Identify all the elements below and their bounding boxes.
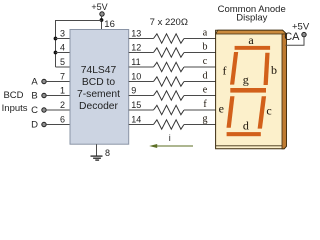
svg-text:9: 9 [131, 85, 136, 95]
wire input D to pin 6 [46, 124, 70, 126]
wire pin 4 stub [56, 52, 71, 54]
wire pin 9 stub [129, 95, 154, 97]
svg-text:BCD to: BCD to [82, 77, 115, 88]
svg-text:c: c [203, 56, 208, 67]
resistor R2 220 ohm [154, 48, 185, 57]
wire input B to pin 1 [46, 95, 70, 97]
display face bottom line [216, 145, 282, 147]
svg-text:b: b [271, 63, 277, 77]
wire pin 13 stub [129, 38, 154, 40]
node junction dot at pin16 branch [100, 18, 104, 22]
wire R5 to display node e [184, 95, 216, 97]
svg-text:CA: CA [284, 31, 300, 43]
power terminal circle +5V [100, 12, 104, 16]
svg-text:d: d [243, 118, 249, 132]
svg-text:8: 8 [105, 148, 110, 158]
segment f [230, 52, 238, 85]
resistor R7 220 ohm [154, 120, 185, 129]
svg-text:2: 2 [60, 100, 65, 110]
power terminal circle CA [302, 32, 306, 36]
wire left vertical rail [55, 20, 57, 67]
svg-text:Inputs: Inputs [2, 103, 28, 114]
resistor R6 220 ohm [154, 105, 185, 114]
wire pin 12 stub [129, 52, 154, 54]
wire R3 to display node c [184, 66, 216, 68]
svg-text:16: 16 [104, 19, 115, 30]
segment b [264, 53, 270, 85]
svg-text:d: d [203, 71, 208, 82]
junction dot rail/pin3 [54, 37, 58, 41]
svg-text:C: C [31, 105, 38, 116]
svg-text:e: e [203, 85, 208, 96]
svg-text:e: e [219, 102, 224, 116]
svg-text:1: 1 [60, 85, 65, 95]
resistor R1 220 ohm [154, 34, 185, 43]
display U2 common anode body [216, 30, 287, 149]
segment c [258, 96, 267, 128]
svg-text:11: 11 [131, 57, 140, 67]
svg-text:13: 13 [131, 28, 141, 38]
svg-text:7: 7 [60, 71, 65, 81]
IC U1 74LS47 body [70, 30, 129, 145]
svg-text:g: g [203, 114, 208, 125]
resistor R3 220 ohm [154, 62, 185, 71]
svg-text:D: D [31, 120, 38, 131]
svg-text:3: 3 [60, 28, 65, 38]
svg-text:10: 10 [131, 71, 141, 81]
svg-text:g: g [243, 73, 249, 87]
svg-text:b: b [203, 42, 208, 53]
wire from +5V terminal down to pin 16 [101, 16, 103, 29]
wire R7 to display node g [184, 124, 216, 126]
wire pin 10 stub [129, 81, 154, 83]
svg-text:f: f [223, 64, 227, 78]
junction dot rail/pin4 [54, 51, 58, 55]
resistor R5 220 ohm [154, 91, 185, 100]
wire R1 to display node a [184, 38, 216, 40]
svg-text:5: 5 [60, 57, 65, 67]
svg-text:B: B [31, 91, 37, 102]
svg-text:Decoder: Decoder [79, 101, 118, 112]
wire pin 3 stub [56, 38, 71, 40]
resistor R4 220 ohm [154, 77, 185, 86]
segment g [230, 88, 266, 93]
svg-text:BCD: BCD [3, 90, 23, 101]
display right bevel [282, 34, 287, 149]
wire R2 to display node b [184, 52, 216, 54]
svg-text:a: a [203, 28, 208, 39]
svg-text:15: 15 [131, 100, 141, 110]
segment d [227, 132, 261, 136]
svg-text:A: A [31, 77, 38, 88]
segment a [235, 46, 271, 50]
wire input C to pin 2 [46, 109, 70, 111]
wire pin 14 stub [129, 124, 154, 126]
svg-text:7-sement: 7-sement [77, 89, 120, 100]
wire pin 15 stub [129, 109, 154, 111]
wire horizontal from junction to left rail [56, 20, 102, 22]
svg-text:+5V: +5V [91, 2, 107, 12]
wire pin 5 stub [56, 66, 71, 68]
svg-text:i: i [169, 133, 171, 143]
svg-text:7 x 220Ω: 7 x 220Ω [150, 17, 188, 28]
display top bevel [216, 30, 287, 34]
svg-text:4: 4 [60, 42, 65, 52]
svg-text:6: 6 [60, 114, 65, 124]
svg-text:12: 12 [131, 42, 141, 52]
svg-text:14: 14 [131, 114, 141, 124]
segment e [227, 96, 235, 128]
svg-text:a: a [248, 33, 254, 47]
wire pin 11 stub [129, 66, 154, 68]
svg-text:Display: Display [236, 13, 267, 24]
wire R4 to display node d [184, 81, 216, 83]
wire R6 to display node f [184, 109, 216, 111]
ground [96, 144, 98, 156]
svg-text:74LS47: 74LS47 [81, 65, 117, 76]
wire CA terminal to display anode [286, 37, 305, 46]
wire input A to pin 7 [46, 81, 70, 83]
svg-text:c: c [266, 103, 271, 117]
